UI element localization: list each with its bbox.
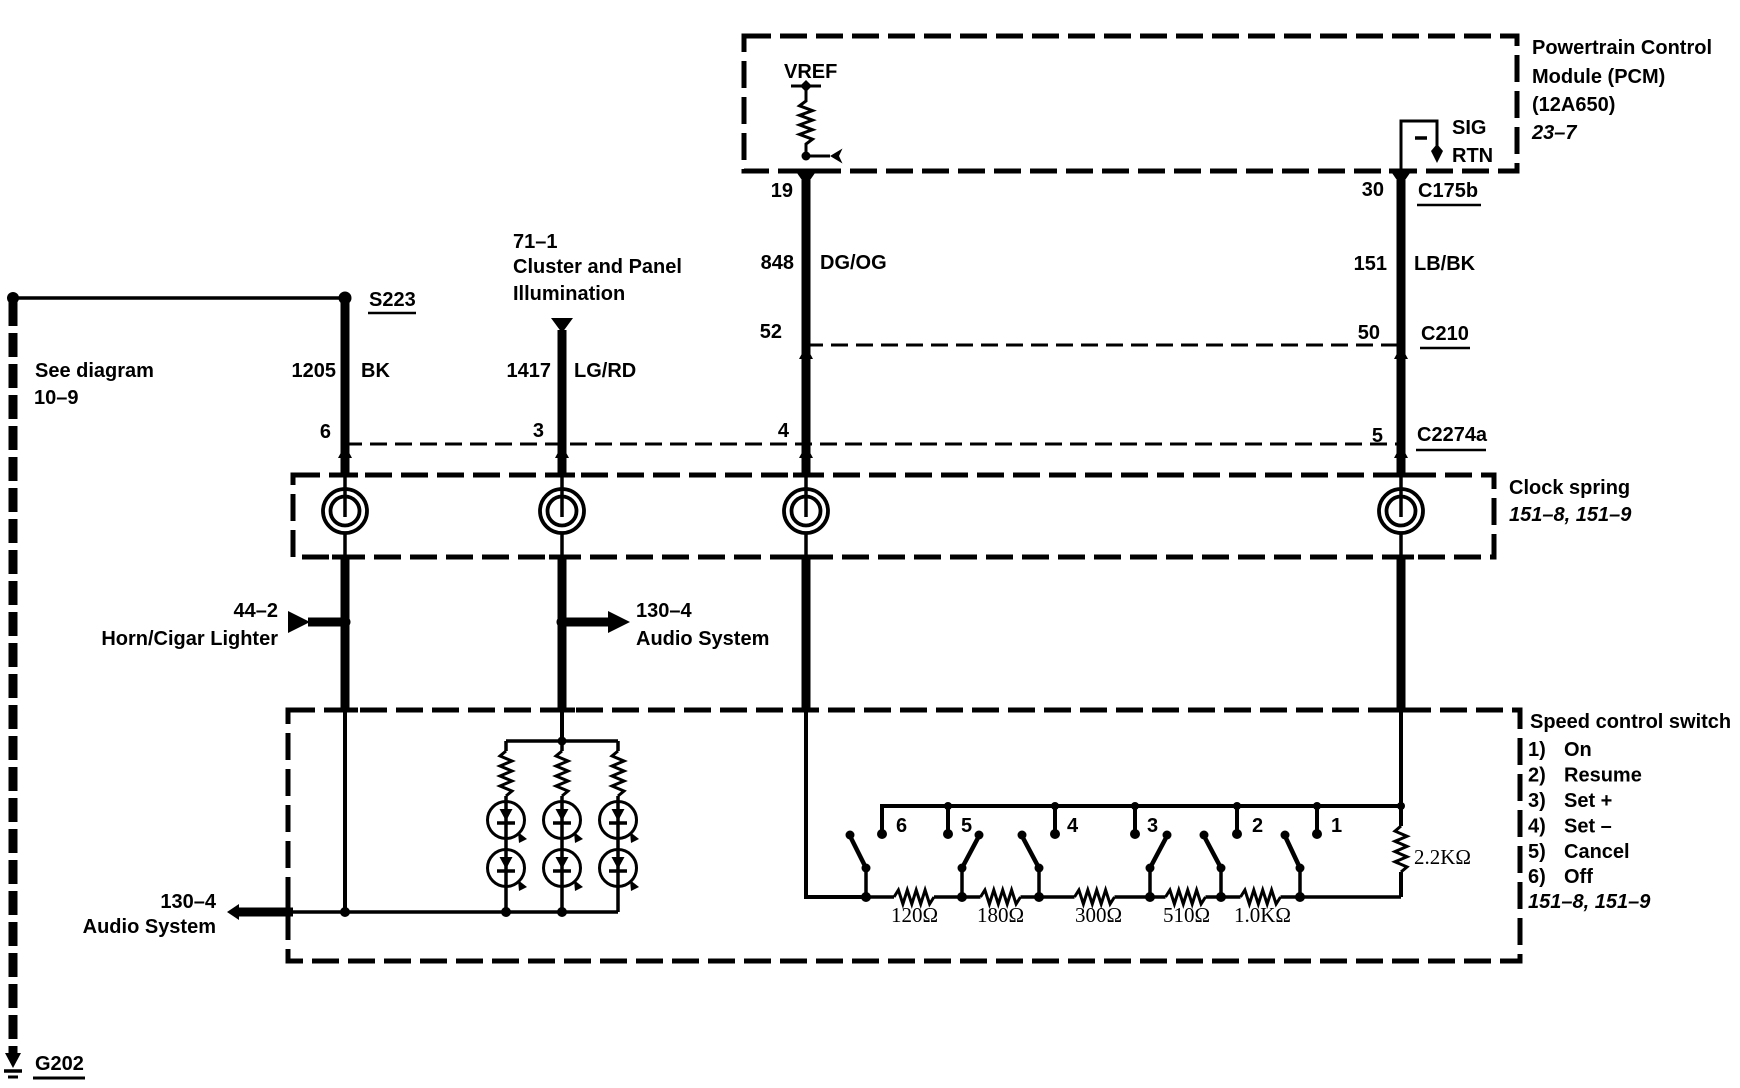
node: wire 1205 at C2274a bbox=[338, 445, 352, 458]
note 71-1 Cluster and Panel Illumination bbox=[513, 231, 682, 305]
node: ladder left junction bbox=[861, 892, 871, 902]
LED return bus bbox=[288, 907, 618, 917]
fixed contact 5 bbox=[943, 802, 953, 839]
arrow from 44-2 Horn/Cigar Lighter bbox=[288, 611, 351, 633]
wire 151 LB/BK (middle section) bbox=[1397, 557, 1406, 710]
svg-text:1): 1) bbox=[1528, 739, 1546, 761]
Speed control switch labels bbox=[1528, 711, 1731, 913]
resistor (VREF internal pull-up) bbox=[800, 86, 813, 156]
wire LB/BK inside switch (thin) bbox=[1399, 710, 1403, 806]
svg-text:52: 52 bbox=[760, 321, 782, 343]
svg-text:2): 2) bbox=[1528, 765, 1546, 787]
ground label G202 bbox=[33, 1053, 85, 1078]
svg-text:Clock spring: Clock spring bbox=[1509, 477, 1630, 499]
wire 848 DG/OG (middle section) bbox=[802, 557, 811, 710]
connector C210 label bbox=[1420, 323, 1470, 348]
node: wire 151 at C210 bbox=[1394, 346, 1408, 359]
svg-text:Cancel: Cancel bbox=[1564, 841, 1630, 863]
signal tap arrow at VREF junction bbox=[806, 149, 843, 164]
LED 6 (illumination bulb) bbox=[600, 850, 640, 892]
svg-text:3: 3 bbox=[1147, 815, 1158, 837]
border patch: PCM bottom at wire 151 bbox=[1389, 169, 1413, 174]
border patch: clock spring bottom at x=806 bbox=[793, 555, 819, 560]
LED 2 (illumination bulb) bbox=[544, 802, 584, 844]
fixed contact 3 bbox=[1130, 802, 1140, 839]
node: ladder junction x=1300 bbox=[1295, 892, 1305, 902]
resistor 300 ohm bbox=[1039, 890, 1150, 904]
svg-text:151: 151 bbox=[1354, 253, 1387, 275]
wire 1205 BK (thick vertical) bbox=[341, 298, 350, 475]
svg-text:6: 6 bbox=[896, 815, 907, 837]
svg-text:On: On bbox=[1564, 739, 1592, 761]
svg-text:4: 4 bbox=[1067, 815, 1079, 837]
svg-text:Audio System: Audio System bbox=[636, 628, 769, 650]
svg-text:1417: 1417 bbox=[507, 360, 552, 382]
clock spring coil 1 bbox=[323, 475, 367, 557]
svg-text:510Ω: 510Ω bbox=[1163, 903, 1210, 927]
svg-text:5: 5 bbox=[961, 815, 972, 837]
left dashed wire (see diagram 10-9) bbox=[9, 302, 18, 1053]
note 44-2 Horn/Cigar Lighter bbox=[101, 600, 278, 650]
svg-text:LG/RD: LG/RD bbox=[574, 360, 636, 382]
svg-text:30: 30 bbox=[1362, 179, 1384, 201]
svg-text:See diagram: See diagram bbox=[35, 360, 154, 382]
node: ladder junction x=1221 bbox=[1216, 892, 1226, 902]
resistor LED branch 1 bbox=[500, 741, 512, 912]
svg-text:3: 3 bbox=[533, 420, 544, 442]
arrow to 130-4 Audio System (bottom) bbox=[227, 904, 293, 920]
svg-text:44–2: 44–2 bbox=[234, 600, 279, 622]
svg-text:Off: Off bbox=[1564, 866, 1593, 888]
svg-text:Speed control switch: Speed control switch bbox=[1530, 711, 1731, 733]
node: ladder junction x=1039 bbox=[1034, 892, 1044, 902]
svg-text:DG/OG: DG/OG bbox=[820, 252, 887, 274]
Speed control switch box bbox=[288, 710, 1520, 961]
border patch: clock spring top at x=345 bbox=[332, 473, 358, 478]
arrow to 130-4 Audio System (top) bbox=[557, 611, 631, 633]
border patch: clock spring top at x=1401 bbox=[1388, 473, 1414, 478]
border patch: clock spring bottom at x=345 bbox=[332, 555, 358, 560]
arrow from cluster illumination circuit bbox=[551, 318, 573, 333]
wire 1205 BK (middle section) bbox=[341, 557, 350, 710]
resistor 180 ohm bbox=[962, 890, 1039, 904]
node: wire 848 at C210 bbox=[799, 341, 813, 360]
clock spring coil 4 bbox=[1379, 475, 1423, 557]
wire DG/OG inside switch (thin, to resistor ladder) bbox=[806, 710, 866, 897]
svg-text:Powertrain Control: Powertrain Control bbox=[1532, 37, 1712, 59]
wire 848 DG/OG (thick vertical) bbox=[797, 173, 815, 475]
svg-text:19: 19 bbox=[771, 180, 793, 202]
LED 3 (illumination bulb) bbox=[600, 802, 640, 844]
svg-text:180Ω: 180Ω bbox=[977, 903, 1024, 927]
switch ladder top rail bbox=[882, 806, 1401, 831]
svg-text:LB/BK: LB/BK bbox=[1414, 253, 1476, 275]
fixed contact 1 bbox=[1312, 802, 1322, 839]
switch blade for contact 6 (Off) bbox=[846, 831, 871, 898]
Powertrain Control Module (PCM) box bbox=[744, 36, 1517, 171]
connector C2274a dashed line bbox=[345, 443, 1401, 446]
border patch: clock spring top at x=806 bbox=[793, 473, 819, 478]
resistor LED branch 3 bbox=[612, 741, 624, 912]
node: ladder junction x=962 bbox=[957, 892, 967, 902]
svg-text:6): 6) bbox=[1528, 866, 1546, 888]
svg-text:5): 5) bbox=[1528, 841, 1546, 863]
splice node S223 bbox=[339, 292, 352, 305]
border patch: switch box top at x=345 bbox=[332, 708, 358, 713]
svg-text:Resume: Resume bbox=[1564, 765, 1642, 787]
svg-text:C175b: C175b bbox=[1418, 180, 1478, 202]
SIG RTN sense symbol bbox=[1401, 121, 1443, 171]
svg-text:Horn/Cigar Lighter: Horn/Cigar Lighter bbox=[101, 628, 278, 650]
clock spring coil 2 bbox=[540, 475, 584, 557]
resistor 2.2K ohm bbox=[1395, 802, 1407, 897]
fixed contact 6 bbox=[877, 806, 887, 839]
svg-text:(12A650): (12A650) bbox=[1532, 94, 1615, 116]
svg-text:300Ω: 300Ω bbox=[1075, 903, 1122, 927]
connector C2274a label bbox=[1416, 424, 1488, 450]
VREF terminal bar bbox=[791, 80, 821, 92]
svg-text:4): 4) bbox=[1528, 816, 1546, 838]
border patch: clock spring bottom at x=1401 bbox=[1388, 555, 1414, 560]
See diagram note bbox=[34, 360, 154, 409]
svg-text:151–8, 151–9: 151–8, 151–9 bbox=[1509, 504, 1632, 526]
svg-text:130–4: 130–4 bbox=[160, 891, 216, 913]
svg-text:10–9: 10–9 bbox=[34, 387, 79, 409]
svg-text:VREF: VREF bbox=[784, 61, 837, 83]
note 130-4 Audio System (bottom) bbox=[83, 891, 217, 938]
node: wire 1417 at C2274a bbox=[555, 445, 569, 458]
Clock spring box bbox=[293, 475, 1494, 557]
svg-text:151–8, 151–9: 151–8, 151–9 bbox=[1528, 891, 1651, 913]
resistor 1.0K ohm bbox=[1221, 890, 1300, 904]
svg-text:4: 4 bbox=[778, 420, 790, 442]
svg-text:C210: C210 bbox=[1421, 323, 1469, 345]
LED supply bus bbox=[506, 737, 618, 746]
border patch: clock spring bottom at x=562 bbox=[549, 555, 575, 560]
resistor LED branch 2 bbox=[556, 741, 568, 912]
svg-text:2.2KΩ: 2.2KΩ bbox=[1414, 845, 1471, 869]
svg-text:3): 3) bbox=[1528, 790, 1546, 812]
svg-text:RTN: RTN bbox=[1452, 145, 1493, 167]
S223 label bbox=[368, 289, 416, 313]
svg-text:Set –: Set – bbox=[1564, 816, 1612, 838]
svg-text:S223: S223 bbox=[369, 289, 416, 311]
LED 1 (illumination bulb) bbox=[488, 802, 528, 844]
svg-text:848: 848 bbox=[761, 252, 794, 274]
wire 1417 LG/RD (thick vertical) bbox=[558, 330, 567, 475]
LED 5 (illumination bulb) bbox=[544, 850, 584, 892]
border patch: switch box top at x=1401 bbox=[1388, 708, 1414, 713]
svg-text:Audio System: Audio System bbox=[83, 916, 216, 938]
svg-text:BK: BK bbox=[361, 360, 390, 382]
resistor 510 ohm bbox=[1150, 890, 1221, 904]
svg-text:Illumination: Illumination bbox=[513, 283, 625, 305]
wire from left diagram to S223 bbox=[7, 292, 345, 304]
wire BK inside switch (thin) bbox=[343, 710, 347, 912]
switch blade for contact 3 (Set +) bbox=[1146, 831, 1172, 898]
ladder wire to 2.2K resistor bbox=[1300, 895, 1401, 899]
svg-text:23–7: 23–7 bbox=[1531, 122, 1577, 144]
border patch: PCM bottom at wire 848 bbox=[794, 169, 820, 174]
svg-text:Cluster and Panel: Cluster and Panel bbox=[513, 256, 682, 278]
svg-text:1205: 1205 bbox=[292, 360, 337, 382]
svg-text:C2274a: C2274a bbox=[1417, 424, 1488, 446]
node: wire 151 at C2274a bbox=[1394, 445, 1408, 458]
switch blade for contact 1 (On) bbox=[1281, 831, 1305, 898]
connector C210 dashed line bbox=[806, 344, 1401, 347]
resistor 120 ohm bbox=[866, 890, 962, 904]
svg-text:2: 2 bbox=[1252, 815, 1263, 837]
svg-text:Set +: Set + bbox=[1564, 790, 1612, 812]
node: ladder junction x=1150 bbox=[1145, 892, 1155, 902]
border patch: clock spring top at x=562 bbox=[549, 473, 575, 478]
note 130-4 Audio System (top) bbox=[636, 600, 769, 650]
node: wire 848 at C2274a bbox=[799, 445, 813, 458]
PCM title text bbox=[1531, 37, 1712, 144]
wire LG/RD inside switch (thin) bbox=[560, 710, 564, 741]
svg-text:G202: G202 bbox=[35, 1053, 84, 1075]
svg-text:6: 6 bbox=[320, 421, 331, 443]
svg-text:1.0KΩ: 1.0KΩ bbox=[1234, 903, 1291, 927]
wire 1417 LG/RD (middle section) bbox=[558, 557, 567, 710]
LED 4 (illumination bulb) bbox=[488, 850, 528, 892]
fixed contact 2 bbox=[1232, 802, 1242, 839]
svg-text:Module (PCM): Module (PCM) bbox=[1532, 66, 1665, 88]
switch blade for contact 2 (Resume) bbox=[1200, 831, 1226, 898]
svg-text:130–4: 130–4 bbox=[636, 600, 692, 622]
svg-text:1: 1 bbox=[1331, 815, 1342, 837]
node: VREF/resistor junction bbox=[802, 152, 811, 161]
switch blade for contact 4 (Set -) bbox=[1018, 831, 1044, 898]
clock spring coil 3 bbox=[784, 475, 828, 557]
border patch: switch box left at return bus bbox=[286, 900, 291, 924]
svg-text:50: 50 bbox=[1358, 322, 1380, 344]
fixed contact 4 bbox=[1050, 802, 1060, 839]
wire 151 LB/BK (thick vertical) bbox=[1392, 173, 1410, 475]
Clock spring label bbox=[1509, 477, 1632, 526]
border patch: switch box top at x=562 bbox=[549, 708, 575, 713]
svg-text:120Ω: 120Ω bbox=[891, 903, 938, 927]
svg-text:SIG: SIG bbox=[1452, 117, 1486, 139]
svg-text:71–1: 71–1 bbox=[513, 231, 558, 253]
border patch: switch box top at x=806 bbox=[793, 708, 819, 713]
switch blade for contact 5 (Cancel) bbox=[958, 831, 984, 898]
svg-text:5: 5 bbox=[1372, 425, 1383, 447]
ground G202 symbol bbox=[4, 1053, 22, 1077]
connector C175b label bbox=[1417, 180, 1481, 205]
